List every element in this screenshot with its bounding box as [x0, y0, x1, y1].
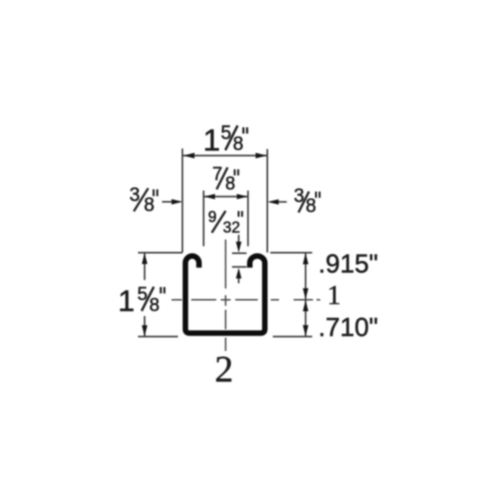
svg-text:1: 1: [118, 285, 135, 318]
7/8 dimension line: [204, 196, 248, 198]
left 1-5/8 dim line (broken by text): [144, 253, 146, 280]
left dim arrows: [142, 253, 148, 264]
top 1-5/8 dimension line: [183, 155, 267, 157]
text: 9/32": [208, 209, 242, 237]
svg-text:32: 32: [223, 220, 240, 237]
extension + dimension lines: [138, 149, 312, 337]
right extension lines: [270, 252, 312, 254]
text: right 3/8": [294, 186, 320, 217]
strut channel profile: [185, 256, 264, 333]
text: left 1 5/8": [118, 283, 164, 318]
3/8 left arrow stem: [162, 201, 178, 203]
svg-text:9: 9: [208, 209, 217, 226]
svg-text:8: 8: [233, 134, 244, 155]
svg-text:8: 8: [225, 174, 235, 194]
right dim arrows: [303, 253, 309, 264]
left extension lines: [138, 252, 183, 254]
svg-text:8: 8: [149, 294, 159, 315]
9/32 arrow stems: [238, 235, 240, 244]
3/8 arrows: [172, 199, 183, 204]
svg-text:1: 1: [203, 123, 220, 158]
top 1-5/8 extension lines: [181, 149, 183, 253]
text: 7/8": [212, 164, 238, 194]
text: left 3/8": [129, 185, 157, 216]
svg-text:8: 8: [306, 196, 317, 217]
svg-text:.710": .710": [318, 312, 378, 342]
top dim arrows: [183, 153, 194, 159]
horizontal centerline: [172, 299, 321, 301]
9/32 tick bars: [232, 252, 247, 254]
vertical centerline: [225, 240, 227, 352]
svg-text:8: 8: [144, 195, 155, 216]
svg-text:2: 2: [215, 349, 234, 390]
svg-text:1: 1: [327, 280, 341, 310]
7/8 arrows: [204, 194, 215, 199]
right dim line: [305, 253, 307, 336]
svg-text:.915": .915": [318, 249, 378, 279]
arrowheads: [142, 153, 309, 337]
7/8 extension lines: [203, 191, 205, 247]
9/32 arrows: [236, 242, 242, 253]
3/8 right arrow stem: [272, 201, 287, 203]
text: top 1 5/8": [203, 123, 247, 158]
